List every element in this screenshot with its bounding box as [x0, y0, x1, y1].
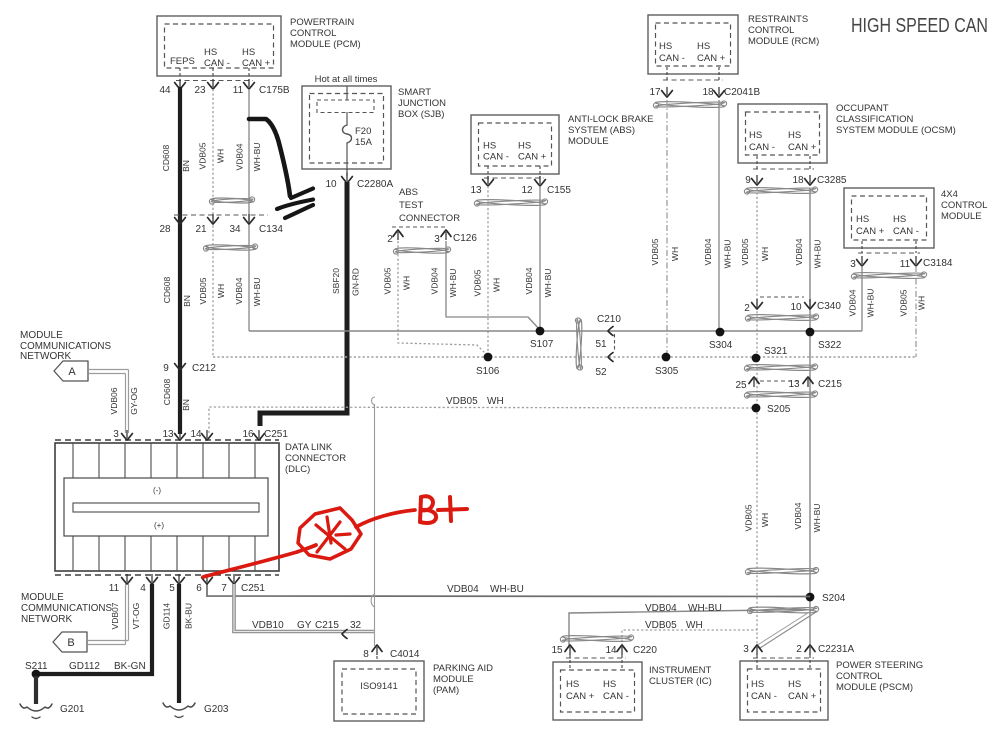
- connector C340 pins 2 10: [760, 296, 804, 298]
- svg-text:13: 13: [162, 429, 174, 440]
- svg-text:VDB10: VDB10: [252, 620, 284, 631]
- svg-text:17: 17: [649, 87, 661, 98]
- svg-text:GD114: GD114: [162, 603, 172, 630]
- svg-text:CD608: CD608: [162, 277, 172, 304]
- svg-text:WH: WH: [760, 513, 770, 527]
- svg-text:CAN -: CAN -: [204, 58, 230, 69]
- svg-text:HS: HS: [483, 141, 496, 152]
- svg-text:3: 3: [850, 259, 856, 270]
- svg-text:ABS: ABS: [399, 187, 418, 198]
- svg-text:S321: S321: [764, 346, 788, 357]
- svg-text:VDB04: VDB04: [703, 238, 713, 265]
- svg-text:CAN +: CAN +: [566, 691, 595, 702]
- module OCSM Occupant Classification System box: [738, 104, 827, 163]
- svg-text:HS: HS: [566, 679, 579, 690]
- connector C210 vertical oval: [575, 318, 583, 370]
- wire SBF20 GN-RD thick from SJB to DLC pin 16: [260, 182, 347, 426]
- splice S321: [752, 354, 761, 363]
- svg-text:OCCUPANT: OCCUPANT: [836, 103, 889, 114]
- svg-text:JUNCTION: JUNCTION: [398, 98, 446, 109]
- svg-text:8: 8: [363, 649, 369, 660]
- svg-text:S204: S204: [822, 593, 846, 604]
- wire VDB05 WH to Instrument Cluster pin 14: [622, 630, 757, 646]
- connector C126 arrows pins 2 3: [392, 226, 448, 228]
- svg-text:VDB05: VDB05: [645, 620, 677, 631]
- svg-text:VT-OG: VT-OG: [131, 603, 141, 629]
- svg-text:MODULE: MODULE: [941, 211, 982, 222]
- svg-text:VDB04: VDB04: [794, 238, 804, 265]
- module 4X4 Control Module box: [844, 188, 934, 248]
- wire VDB04 WH-BU 4X4 pin3 to bus: [861, 266, 863, 331]
- svg-text:HS: HS: [751, 679, 764, 690]
- svg-text:C2280A: C2280A: [357, 179, 393, 190]
- offpage flag B: [53, 632, 87, 652]
- wire thin vertical to PAM with hooks: [374, 404, 376, 646]
- svg-text:CAN +: CAN +: [242, 58, 271, 69]
- svg-text:CAN -: CAN -: [751, 691, 777, 702]
- svg-text:(PAM): (PAM): [433, 685, 459, 696]
- module RCM Restraints Control Module box: [648, 15, 738, 74]
- connector oval C215 upper: [744, 363, 817, 371]
- svg-text:11: 11: [109, 583, 120, 594]
- wire VDB10 GY from DLC pin 7 to C215-32: [234, 584, 374, 632]
- svg-text:3: 3: [113, 429, 119, 440]
- svg-text:C4014: C4014: [390, 649, 420, 660]
- svg-text:INSTRUMENT: INSTRUMENT: [649, 665, 711, 676]
- svg-text:WH: WH: [402, 276, 412, 290]
- svg-text:4: 4: [140, 583, 146, 594]
- connector C220 pins 15 14: [569, 655, 571, 669]
- wire SJB internal to fuse: [346, 86, 348, 100]
- svg-text:10: 10: [790, 302, 802, 313]
- annotation black pen curve from PCM pin 11 wire: [249, 119, 290, 196]
- annotation red scribble polygon: [298, 508, 361, 559]
- svg-text:15: 15: [551, 645, 563, 656]
- connector oval C2041B: [653, 100, 726, 108]
- svg-text:HS: HS: [749, 130, 762, 141]
- svg-text:7: 7: [221, 583, 227, 594]
- svg-text:GY-OG: GY-OG: [129, 387, 139, 415]
- svg-text:4X4: 4X4: [941, 189, 958, 200]
- wire VDB04 WH-BU from C126 pin 3 to S107: [446, 241, 540, 330]
- svg-text:HS: HS: [603, 679, 616, 690]
- svg-text:S106: S106: [476, 366, 500, 377]
- svg-text:MODULE: MODULE: [568, 136, 609, 147]
- svg-text:18: 18: [792, 175, 804, 186]
- svg-text:WH-BU: WH-BU: [723, 240, 733, 269]
- svg-text:GY: GY: [297, 620, 312, 631]
- svg-text:G203: G203: [204, 704, 229, 715]
- splice S211: [32, 670, 41, 679]
- connector C4014 pin 8: [372, 645, 382, 652]
- svg-text:(+): (+): [154, 521, 164, 530]
- wire CD608 BN vertical: [178, 87, 182, 434]
- svg-text:VDB04: VDB04: [645, 603, 677, 614]
- wire VDB04 WH-BU ABS pin12 to S107: [539, 186, 541, 331]
- svg-text:HS: HS: [697, 41, 710, 52]
- svg-text:VDB05: VDB05: [446, 396, 478, 407]
- annotation red plus sign: [438, 497, 467, 521]
- svg-text:VDB04: VDB04: [524, 267, 534, 294]
- svg-text:POWER STEERING: POWER STEERING: [836, 660, 923, 671]
- annotation black hash stroke 3: [285, 205, 313, 218]
- svg-text:VDB04: VDB04: [235, 143, 245, 170]
- wire VDB05 WH 4X4 pin11 to bus: [915, 266, 917, 357]
- svg-text:WH: WH: [492, 278, 502, 292]
- wire VT-OG DLC pin 4 down: [36, 584, 152, 674]
- svg-text:12: 12: [521, 185, 533, 196]
- wire VDB04 WH-BU OCSM pin18 down right side: [809, 188, 811, 646]
- ground G201: [20, 704, 52, 711]
- svg-text:3: 3: [434, 234, 440, 245]
- svg-text:WH: WH: [487, 396, 504, 407]
- svg-text:13: 13: [470, 185, 482, 196]
- svg-text:(DLC): (DLC): [285, 464, 310, 475]
- svg-text:VDB04: VDB04: [793, 502, 803, 529]
- annotation red letter B: [420, 496, 436, 523]
- svg-text:MODULE (PCM): MODULE (PCM): [290, 39, 361, 50]
- svg-text:BN: BN: [181, 160, 191, 172]
- wire VDB05 WH OCSM pin9 down right side: [756, 188, 758, 646]
- wire CAN- bus VDB05 WH horizontal: [213, 356, 917, 358]
- svg-text:25: 25: [735, 380, 747, 391]
- connector C2231A pins 3 2: [756, 655, 758, 669]
- connector C251 top arrows pins 3 13 14 16: [122, 434, 133, 441]
- svg-text:2: 2: [744, 303, 750, 314]
- svg-text:BOX (SJB): BOX (SJB): [398, 109, 444, 120]
- connector oval C220: [560, 634, 633, 642]
- svg-text:CAN +: CAN +: [697, 53, 726, 64]
- svg-text:B: B: [67, 637, 74, 649]
- connector C251 bottom arrows pins 11 4 5 6 7: [122, 578, 133, 585]
- svg-text:C134: C134: [259, 224, 283, 235]
- svg-text:WH: WH: [760, 247, 770, 261]
- svg-text:BK-BU: BK-BU: [184, 603, 194, 629]
- module PSCM Power Steering Control Module box: [740, 661, 828, 720]
- svg-text:15A: 15A: [355, 137, 373, 148]
- svg-text:VDB05: VDB05: [473, 269, 483, 296]
- svg-text:WH: WH: [216, 149, 226, 163]
- svg-text:Hot at all times: Hot at all times: [315, 74, 378, 85]
- svg-text:C126: C126: [453, 233, 477, 244]
- svg-text:A: A: [68, 366, 76, 378]
- connector C212 pin 9: [175, 364, 186, 371]
- annotation black hash stroke 1: [291, 189, 313, 199]
- svg-text:S205: S205: [767, 404, 791, 415]
- svg-text:MODULE: MODULE: [20, 330, 63, 341]
- svg-text:VDB04: VDB04: [848, 289, 858, 316]
- svg-text:CONNECTOR: CONNECTOR: [399, 213, 460, 224]
- svg-text:CONTROL: CONTROL: [290, 28, 336, 39]
- svg-text:WH: WH: [670, 247, 680, 261]
- connector C134 arrows pins 28 21 34: [175, 218, 186, 225]
- svg-text:BN: BN: [182, 295, 192, 307]
- svg-text:VDB05: VDB05: [383, 267, 393, 294]
- svg-text:CAN +: CAN +: [788, 142, 817, 153]
- wire S211 to ground G201: [34, 676, 38, 704]
- module DLC Data Link Connector box: [55, 443, 279, 571]
- wire diagonal to PSCM pin 3: [760, 612, 816, 648]
- svg-text:VDB05: VDB05: [744, 504, 754, 531]
- svg-text:C210: C210: [597, 314, 621, 325]
- svg-text:GN-RD: GN-RD: [351, 268, 361, 296]
- svg-text:VDB07: VDB07: [110, 602, 120, 629]
- svg-text:C215: C215: [315, 620, 339, 631]
- svg-text:CAN -: CAN -: [603, 691, 629, 702]
- svg-text:CD608: CD608: [161, 145, 171, 172]
- svg-text:S305: S305: [655, 366, 679, 377]
- connector C215 pin 32 arrow: [342, 630, 347, 639]
- wire VDB04 WH-BU from DLC pin 6 to S204: [207, 584, 810, 597]
- svg-text:21: 21: [195, 224, 207, 235]
- svg-text:CAN -: CAN -: [893, 226, 919, 237]
- connector oval below S204: [747, 606, 818, 614]
- svg-text:51: 51: [595, 339, 607, 350]
- svg-text:C251: C251: [264, 429, 288, 440]
- svg-text:CAN -: CAN -: [659, 53, 685, 64]
- svg-text:CD608: CD608: [162, 379, 172, 406]
- wire VDB04 WH-BU from PCM pin 11: [248, 89, 250, 331]
- wire VDB05 WH from C126 pin 2 to S106: [398, 241, 488, 356]
- svg-text:CLUSTER (IC): CLUSTER (IC): [649, 676, 712, 687]
- svg-text:13: 13: [788, 379, 800, 390]
- svg-text:WH-BU: WH-BU: [866, 289, 876, 318]
- connector C155 pins 13 12: [487, 166, 489, 180]
- module PAM Parking Aid Module box: [334, 661, 424, 721]
- connector C3285 pins 9 18: [756, 156, 758, 169]
- connector C3184 pins 3 11: [861, 241, 863, 253]
- svg-text:RESTRAINTS: RESTRAINTS: [748, 14, 808, 25]
- annotation red line from DLC pin 6: [203, 552, 297, 577]
- connector oval above S204: [745, 567, 818, 575]
- connector C251 bottom dashed row: [55, 574, 279, 576]
- svg-text:G201: G201: [60, 704, 85, 715]
- svg-text:PARKING AID: PARKING AID: [433, 663, 493, 674]
- annotation red curve to B+: [356, 510, 415, 527]
- svg-text:11: 11: [233, 85, 244, 96]
- connector C134 dashed link: [174, 214, 268, 216]
- svg-text:C220: C220: [633, 645, 657, 656]
- svg-text:(-): (-): [153, 486, 161, 495]
- connector oval C3184: [851, 271, 926, 279]
- connector oval below C126: [393, 247, 450, 254]
- svg-text:C340: C340: [817, 301, 841, 312]
- fuse F20 15A: [343, 125, 352, 143]
- module ABS Anti-lock Brake System box: [471, 115, 559, 174]
- svg-text:3: 3: [743, 644, 749, 655]
- annotation black hash stroke 2: [277, 200, 313, 210]
- wire VDB04 WH-BU to Instrument Cluster pin 15: [569, 610, 806, 647]
- connector C215 arrows 25 13: [760, 380, 800, 382]
- svg-text:WH: WH: [917, 296, 927, 310]
- svg-text:VDB05: VDB05: [740, 238, 750, 265]
- svg-text:MODULE (PSCM): MODULE (PSCM): [836, 682, 913, 693]
- svg-text:2: 2: [387, 234, 393, 245]
- svg-text:32: 32: [350, 620, 362, 631]
- wire VDB07 VT-OG from DLC pin 11 to flag B: [88, 640, 129, 642]
- svg-text:MODULE (RCM): MODULE (RCM): [748, 36, 819, 47]
- connector C2041B pins 17 18: [666, 67, 668, 80]
- svg-text:WH-BU: WH-BU: [448, 269, 458, 298]
- svg-text:POWERTRAIN: POWERTRAIN: [290, 17, 354, 28]
- svg-text:CAN +: CAN +: [518, 152, 547, 163]
- svg-text:GD112: GD112: [69, 661, 100, 672]
- svg-text:5: 5: [169, 583, 175, 594]
- svg-text:CAN +: CAN +: [856, 226, 885, 237]
- svg-text:18: 18: [702, 87, 714, 98]
- svg-text:28: 28: [159, 224, 171, 235]
- wire VDB05 WH from PCM pin 23: [212, 89, 214, 357]
- connector oval above C134: [209, 197, 254, 204]
- annotation red scribble tail: [297, 545, 316, 552]
- svg-text:9: 9: [163, 363, 169, 374]
- svg-text:WH: WH: [686, 620, 703, 631]
- svg-text:C155: C155: [547, 185, 571, 196]
- svg-text:HS: HS: [204, 47, 217, 58]
- svg-text:CONTROL: CONTROL: [941, 200, 987, 211]
- svg-text:COMMUNICATIONS: COMMUNICATIONS: [21, 603, 112, 614]
- wire GD114 BK-BU DLC pin 5 to ground: [177, 584, 181, 703]
- svg-text:CLASSIFICATION: CLASSIFICATION: [836, 114, 914, 125]
- svg-text:WH-BU: WH-BU: [543, 269, 553, 298]
- svg-text:NETWORK: NETWORK: [21, 614, 72, 625]
- svg-text:34: 34: [229, 224, 241, 235]
- wire VDB04 WH-BU RCM pin18 to S304: [718, 100, 720, 332]
- ground G203: [163, 703, 195, 710]
- module SJB Smart Junction Box: [302, 86, 391, 169]
- wire VDB06 GY-OG from flag A to DLC pin 3: [89, 369, 129, 371]
- svg-text:C3184: C3184: [923, 258, 953, 269]
- svg-text:S211: S211: [25, 661, 48, 672]
- svg-text:VDB05: VDB05: [198, 277, 208, 304]
- svg-text:CAN +: CAN +: [788, 691, 817, 702]
- svg-text:SYSTEM MODULE (OCSM): SYSTEM MODULE (OCSM): [836, 125, 956, 136]
- splice S305: [662, 353, 671, 362]
- svg-text:CONNECTOR: CONNECTOR: [285, 453, 346, 464]
- svg-text:CAN -: CAN -: [749, 142, 775, 153]
- connector oval C215 lower: [744, 390, 817, 398]
- module IC Instrument Cluster box: [553, 662, 642, 720]
- svg-text:WH-BU: WH-BU: [813, 240, 823, 269]
- svg-text:14: 14: [605, 645, 617, 656]
- svg-text:BN: BN: [181, 399, 191, 411]
- svg-text:HS: HS: [893, 214, 906, 225]
- splice S106: [484, 353, 493, 362]
- svg-text:DATA LINK: DATA LINK: [285, 442, 333, 453]
- svg-text:44: 44: [159, 85, 171, 96]
- svg-text:C3285: C3285: [817, 175, 847, 186]
- svg-text:VDB05: VDB05: [899, 289, 909, 316]
- annotation red scribble star: [316, 517, 350, 552]
- svg-text:VDB04: VDB04: [447, 584, 479, 595]
- splice S205: [752, 404, 761, 413]
- svg-text:BK-GN: BK-GN: [114, 661, 146, 672]
- svg-text:CONTROL: CONTROL: [836, 671, 882, 682]
- svg-text:C215: C215: [818, 379, 842, 390]
- svg-text:VDB06: VDB06: [109, 387, 119, 414]
- svg-text:C251: C251: [241, 583, 265, 594]
- splice S304: [716, 328, 725, 337]
- svg-text:SBF20: SBF20: [331, 268, 341, 294]
- svg-text:C212: C212: [192, 363, 216, 374]
- connector oval C340: [745, 313, 818, 321]
- svg-text:HS: HS: [788, 130, 801, 141]
- svg-text:WH-BU: WH-BU: [252, 143, 262, 172]
- svg-text:HS: HS: [856, 214, 869, 225]
- svg-text:WH: WH: [216, 284, 226, 298]
- svg-text:23: 23: [194, 85, 206, 96]
- svg-text:S322: S322: [818, 340, 842, 351]
- svg-text:HIGH SPEED CAN: HIGH SPEED CAN: [851, 15, 988, 37]
- svg-text:10: 10: [325, 179, 337, 190]
- svg-text:C175B: C175B: [259, 85, 290, 96]
- svg-text:HS: HS: [242, 47, 255, 58]
- svg-text:ANTI-LOCK BRAKE: ANTI-LOCK BRAKE: [568, 114, 654, 125]
- svg-text:FEPS: FEPS: [170, 56, 195, 67]
- svg-text:CONTROL: CONTROL: [748, 25, 794, 36]
- svg-text:S107: S107: [530, 339, 554, 350]
- svg-text:F20: F20: [355, 126, 371, 137]
- splice S204: [806, 593, 815, 602]
- connector oval C3285: [744, 186, 817, 194]
- connector oval C155: [474, 198, 547, 206]
- wire VDB05 WH ABS pin13 to S106: [487, 186, 489, 357]
- svg-text:14: 14: [190, 429, 202, 440]
- svg-text:ISO9141: ISO9141: [360, 681, 398, 692]
- svg-text:C2231A: C2231A: [818, 644, 854, 655]
- svg-text:11: 11: [900, 259, 911, 270]
- wire CAN+ bus VDB04 WH-BU horizontal: [249, 330, 862, 332]
- connector C251 top dashed row: [55, 439, 279, 441]
- wire VDB05 WH RCM pin17 to S305: [666, 100, 668, 357]
- connector C2280A pin 10: [346, 169, 348, 176]
- svg-text:9: 9: [745, 175, 751, 186]
- module U-PCM Powertrain Control Module box: [157, 16, 281, 76]
- svg-text:CAN -: CAN -: [483, 152, 509, 163]
- svg-text:VDB04: VDB04: [430, 267, 440, 294]
- svg-text:WH-BU: WH-BU: [812, 504, 822, 533]
- svg-text:S304: S304: [709, 340, 733, 351]
- svg-text:VDB05: VDB05: [198, 142, 208, 169]
- svg-text:C2041B: C2041B: [724, 87, 760, 98]
- svg-text:HS: HS: [659, 41, 672, 52]
- svg-text:VDB04: VDB04: [234, 277, 244, 304]
- svg-text:6: 6: [196, 583, 202, 594]
- splice S107: [536, 327, 545, 336]
- svg-text:HS: HS: [788, 679, 801, 690]
- svg-text:TEST: TEST: [399, 200, 423, 211]
- svg-text:2: 2: [796, 644, 802, 655]
- svg-text:WH-BU: WH-BU: [688, 603, 722, 614]
- svg-text:16: 16: [242, 429, 254, 440]
- svg-text:SMART: SMART: [398, 87, 431, 98]
- svg-text:HS: HS: [518, 141, 531, 152]
- wire VDB05 WH from DLC pin 14 to S205: [209, 407, 756, 433]
- svg-text:SYSTEM (ABS): SYSTEM (ABS): [568, 125, 635, 136]
- svg-text:MODULE: MODULE: [433, 674, 474, 685]
- svg-text:VDB05: VDB05: [650, 238, 660, 265]
- svg-text:52: 52: [595, 367, 607, 378]
- splice S322: [806, 328, 815, 337]
- connector C175B pins 44 23 11: [179, 68, 181, 78]
- svg-text:WH-BU: WH-BU: [490, 584, 524, 595]
- svg-text:WH-BU: WH-BU: [252, 278, 262, 307]
- connector oval below C134: [203, 244, 257, 251]
- offpage flag A: [54, 361, 88, 381]
- svg-text:MODULE: MODULE: [21, 592, 64, 603]
